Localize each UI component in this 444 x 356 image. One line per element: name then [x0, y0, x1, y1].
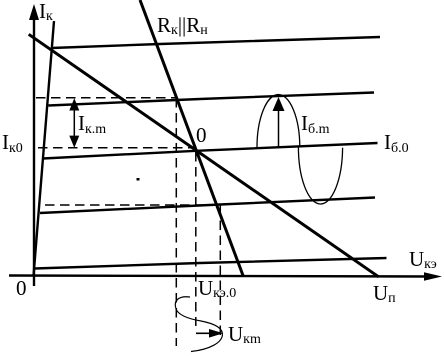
- base current sine: upper half-ellipse lobe: [257, 95, 300, 149]
- characteristic curve 2: [49, 93, 375, 106]
- y-axis: [33, 16, 35, 286]
- svg-text:0: 0: [16, 276, 27, 300]
- dashed vertical at U_кэ max (x=220): [219, 206, 221, 337]
- characteristic curve 4: [40, 198, 375, 214]
- characteristic curve 5 (lowest): [35, 258, 387, 269]
- dashed vertical at U_кэ.0 (x=196): [195, 152, 197, 326]
- dashed vertical at U_кэ min (x=176): [175, 98, 177, 346]
- y-axis arrowhead: [29, 4, 39, 20]
- stray dot: [137, 178, 140, 181]
- svg-text:0: 0: [196, 123, 207, 147]
- characteristic curve 3 (I_б.0 through operating point): [43, 143, 378, 159]
- dashed horizontal at bottom of swing: [45, 204, 217, 206]
- AC load line R_к||R_н: [140, 0, 243, 276]
- dashed horizontal at top of I_к.m swing: [36, 97, 176, 99]
- output voltage sine (S curve): [175, 297, 222, 352]
- saturation line (steep line near y-axis): [34, 21, 55, 276]
- base current sine: lower half-ellipse lobe: [298, 146, 342, 204]
- U_кm arrow: [196, 332, 212, 334]
- x-axis: [9, 276, 430, 277]
- DC load line (to U_п): [29, 34, 379, 276]
- I_к.m double arrow: [73, 104, 75, 142]
- I_б.m arrow: [278, 107, 280, 147]
- x-axis arrowhead: [424, 272, 442, 280]
- characteristic curve 1 (top): [52, 37, 381, 48]
- dashed horizontal at I_к0 level: [38, 147, 196, 149]
